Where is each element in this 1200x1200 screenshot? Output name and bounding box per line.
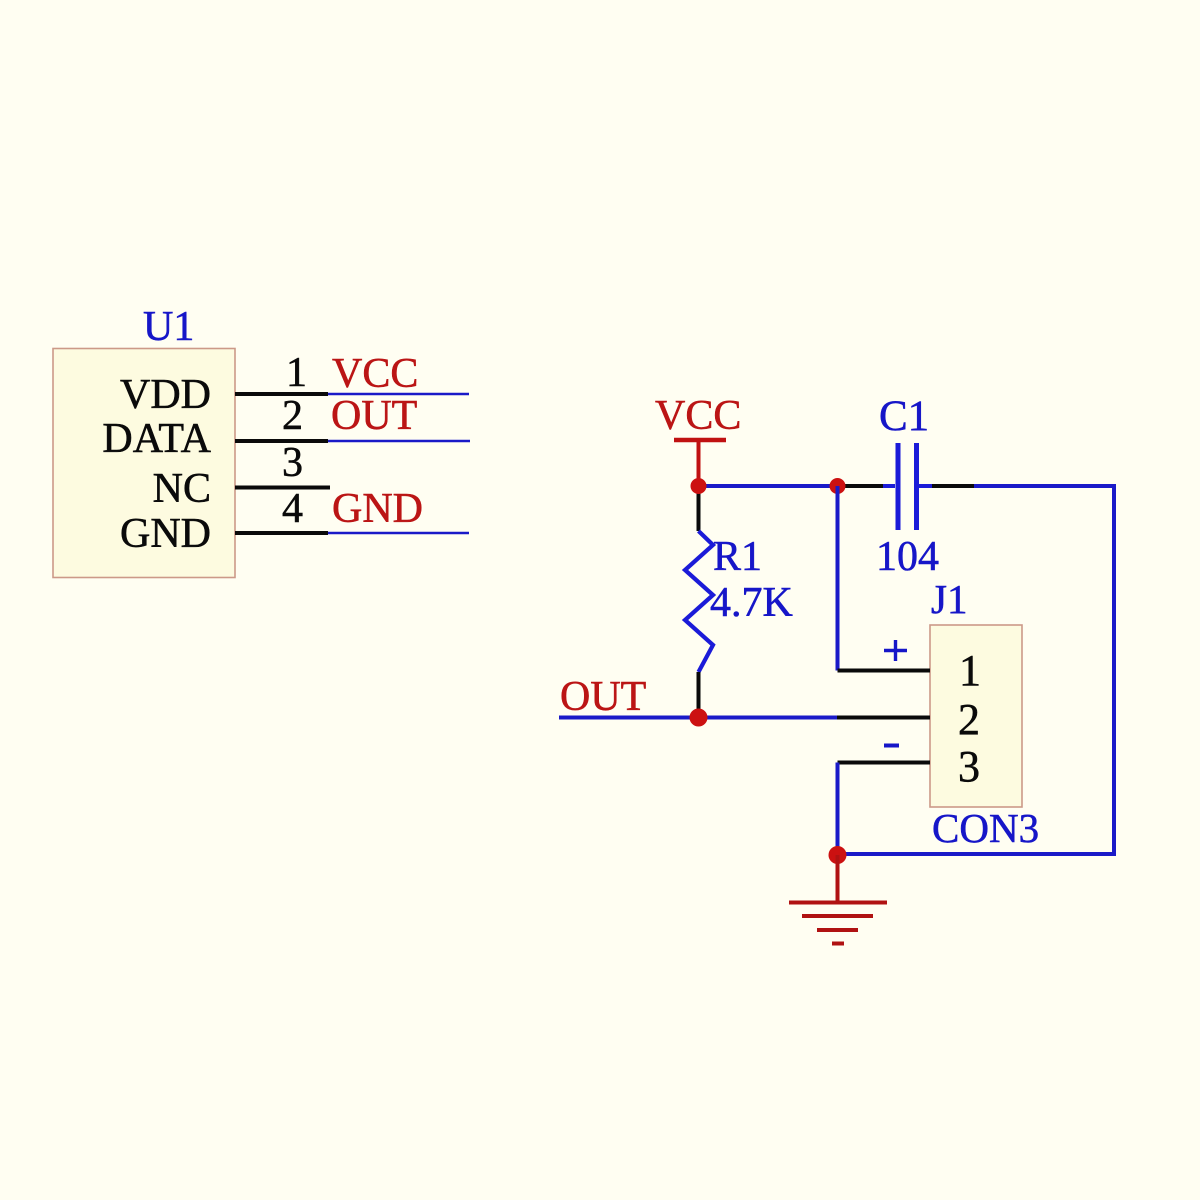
svg-text:3: 3 [958, 742, 980, 791]
svg-text:VCC: VCC [332, 351, 418, 397]
svg-text:3: 3 [282, 440, 303, 486]
svg-text:1: 1 [286, 350, 307, 396]
U1 pin 1 [235, 392, 328, 396]
svg-text:OUT: OUT [331, 393, 417, 439]
power symbol VCC bar [674, 438, 726, 443]
svg-text:4.7K: 4.7K [710, 580, 793, 626]
junction node C (OUT / R1 / J1 pin2) [690, 709, 708, 727]
U1 pin 2 [235, 439, 328, 443]
wire C1 right pin to right rail [974, 484, 1116, 488]
wire J1 pin 3 down to ground node [836, 763, 840, 855]
capacitor C1 left pin [844, 484, 883, 488]
junction node B (VCC / C1 / J1 pin1) [830, 478, 846, 494]
resistor R1 zigzag body [685, 531, 713, 672]
svg-text:2: 2 [282, 393, 303, 439]
J1 pin 3 polarity mark - [884, 744, 899, 748]
resistor R1 bottom lead [697, 672, 701, 718]
J1 pin 1 polarity mark + [884, 640, 907, 661]
svg-text:DATA: DATA [102, 416, 211, 462]
wire bottom rail to ground node [838, 852, 1117, 856]
svg-text:J1: J1 [931, 576, 967, 622]
component U1 body [53, 349, 235, 578]
capacitor C1 left pin hot-end [883, 484, 895, 488]
svg-text:U1: U1 [143, 304, 194, 350]
svg-text:104: 104 [876, 534, 939, 580]
wire node A to node B [699, 484, 838, 488]
wire net OUT from U1 pin 2 [328, 440, 470, 443]
junction node A (VCC / R1) [691, 478, 707, 494]
J1 pin 3 [838, 761, 931, 765]
U1 pin 3 [235, 486, 330, 490]
ground symbol bar 4 [832, 942, 844, 946]
ground symbol bar 3 [817, 928, 858, 932]
svg-text:R1: R1 [713, 534, 762, 580]
wire net OUT (left stub) [559, 716, 837, 720]
ground symbol stem [836, 855, 840, 902]
J1 pin 1 [838, 669, 931, 673]
svg-text:CON3: CON3 [932, 805, 1039, 851]
svg-text:1: 1 [959, 646, 981, 695]
svg-text:NC: NC [153, 466, 211, 512]
wire node B down to J1 pin 1 [836, 486, 840, 671]
svg-text:VCC: VCC [655, 393, 741, 439]
U1 pin 4 [235, 531, 328, 535]
wire right rail vertical [1112, 484, 1116, 856]
capacitor C1 left plate [896, 443, 901, 530]
resistor R1 top lead [697, 484, 701, 531]
capacitor C1 right plate [914, 443, 919, 530]
junction node D (ground) [829, 846, 847, 864]
wire net GND from U1 pin 4 [328, 532, 469, 535]
wire net VCC from U1 pin 1 [328, 393, 469, 396]
connector J1 body [930, 625, 1022, 807]
J1 pin 2 [837, 716, 930, 720]
svg-text:2: 2 [958, 695, 980, 744]
ground symbol bar 1 [789, 901, 887, 905]
svg-text:OUT: OUT [560, 674, 646, 720]
power symbol VCC stem [697, 440, 701, 480]
capacitor C1 right pin [932, 484, 974, 488]
svg-text:4: 4 [282, 486, 303, 532]
svg-text:VDD: VDD [120, 372, 211, 418]
capacitor C1 right pin hot-end [919, 484, 933, 488]
svg-text:GND: GND [332, 486, 423, 532]
ground symbol bar 2 [802, 914, 873, 918]
svg-text:GND: GND [120, 511, 211, 557]
svg-text:C1: C1 [879, 393, 929, 440]
